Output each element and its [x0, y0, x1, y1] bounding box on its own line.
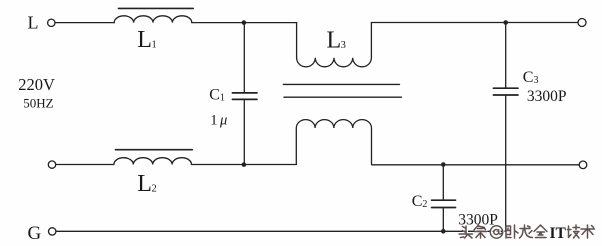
node: L1 / C1 junction [242, 20, 247, 25]
svg-text:220V: 220V [18, 75, 55, 94]
svg-text:C1: C1 [209, 87, 225, 104]
svg-text:L: L [28, 12, 39, 32]
svg-text:L3: L3 [327, 28, 346, 54]
capacitor C3 leads [505, 23, 507, 232]
wire L2 to L3 bottom [192, 164, 297, 166]
svg-text:IT: IT [550, 225, 567, 242]
capacitor C3 plates [493, 88, 518, 95]
terminal neutral output [579, 161, 587, 169]
svg-text:C2: C2 [412, 193, 428, 210]
node: L2 / C1 junction [242, 162, 247, 167]
svg-text:1μ: 1μ [210, 113, 227, 129]
capacitor C2 plates [432, 200, 456, 207]
node: C2 / ground junction [441, 229, 446, 234]
core bar of L2 [116, 149, 193, 151]
svg-text:L1: L1 [137, 27, 156, 53]
svg-text:C3: C3 [523, 69, 539, 86]
inductor L1 [114, 16, 192, 23]
wire L1 to L3 top [192, 22, 297, 24]
inductor L3 top winding [297, 23, 372, 67]
wire L terminal to L1 [55, 22, 114, 24]
svg-text:3300P: 3300P [527, 88, 567, 105]
inductor L3 bottom winding [296, 120, 371, 165]
terminal line output [578, 19, 586, 27]
terminal L (input line) [48, 19, 55, 26]
core bar of L1 [118, 7, 193, 9]
node: C3 / line-out junction [503, 20, 508, 25]
inductor L2 [114, 158, 192, 165]
terminal G (ground) [49, 228, 56, 235]
capacitor C1 leads [243, 23, 245, 165]
wire ground rail [56, 230, 506, 232]
capacitor C2 leads [442, 165, 444, 232]
svg-text:G: G [28, 223, 42, 244]
wire N terminal to L2 [56, 164, 114, 166]
node: C2 / neutral-out junction [441, 162, 446, 167]
wire L3 top to output terminal [371, 22, 578, 24]
capacitor C1 plates [232, 93, 257, 100]
watermark: 头条@卧龙会IT技术 [460, 226, 596, 239]
core lines of L3 [283, 83, 399, 85]
terminal N (input neutral) [48, 161, 55, 168]
svg-text:L2: L2 [137, 171, 156, 197]
svg-text:50HZ: 50HZ [23, 96, 53, 111]
wire L3 bottom to neutral output terminal [372, 164, 579, 166]
